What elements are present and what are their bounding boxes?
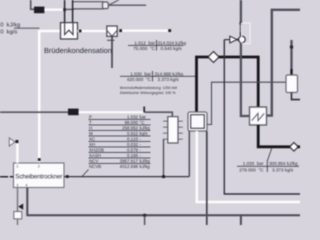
svg-text:M: M [89,131,93,136]
wire: bottom stub below J10 [240,215,242,225]
annotation text (Brennstoffwaermeleistung / Wirkungsgrad) [120,86,178,95]
wire: dryer pin 3 drain line [17,188,19,226]
wire: vapour line 2 into condenser [72,0,74,23]
drum D1 (horizontal cylinder with end cap) [73,2,108,9]
svg-text:kg/s: kg/s [140,131,149,136]
svg-text:XC: XC [89,136,95,141]
svg-text:0.032: 0.032 [127,142,139,147]
wire: white segment from K2 [79,111,144,113]
svg-text:bar: bar [140,114,147,119]
svg-text:4: 4 [26,183,28,187]
svg-text:0.640 kg/s: 0.640 kg/s [161,46,183,51]
wire: vapour line 1 into condenser [64,0,66,23]
wire: dark tip above B1 [290,69,292,75]
node J3 [119,29,122,32]
node J1 [63,8,66,11]
svg-text:1: 1 [17,164,19,168]
wire: white line from source into dryer pin 1 [16,144,18,164]
wire: main steam pipe (thick black) with corner [197,57,260,112]
node J4 (open end) [168,29,171,32]
svg-text:T: T [89,120,92,125]
heat exchanger W2 (box with zigzag) [250,107,267,125]
label S1 (cut-off stream values, kJ/kg and kg/s) [0,23,20,36]
wire: signal line from right box to G1 [207,82,286,124]
table T1 (stream property table) [89,114,150,168]
wire: gray feed from top edge into black box K1 [31,0,34,9]
component K2 (black box) [68,109,79,116]
svg-text:420.000 °C: 420.000 °C [127,77,152,82]
separator V1 (box with V funnel) [107,26,117,36]
svg-text:kJ/kg: kJ/kg [140,158,151,163]
wire: dark line from B1 bottom to right edge [292,93,301,100]
svg-text:Elektrischer Wirkungsgrad: 100: Elektrischer Wirkungsgrad: 100 % [120,91,176,95]
svg-text:kJ/kg: kJ/kg [140,164,151,169]
label S4 (1.030 bar / 279.000 C | 300.854 kJ/kg / 3.373 kg/s) [239,161,298,172]
svg-text:0.166: 0.166 [127,153,139,158]
svg-text:4012.698: 4012.698 [120,164,139,169]
svg-text:H: H [89,125,92,130]
wire: dash-dot line into dryer left [0,176,13,178]
label S2 (1.012 bar / 75.000 C | 314.024 kJ/kg / 0.640 kg/s) [133,40,186,51]
svg-text:0.579: 0.579 [127,147,139,152]
svg-text:10 kg/s: 10 kg/s [0,29,17,35]
node J5 [162,175,165,178]
arrow A2 (black triangle pointing left) [18,204,23,210]
wire: diagonal from drum cap [109,0,120,5]
valve VA1 (bowtie + circle) [224,36,245,43]
wire: thin line from valve corner down and right to edge [224,40,300,194]
svg-text:314.024 kJ/kg: 314.024 kJ/kg [158,40,187,45]
diamond N1 on steam pipe [208,52,219,63]
svg-text:XASH: XASH [89,153,101,158]
node J8 [66,175,69,178]
svg-text:Scheibentrockner: Scheibentrockner [15,174,62,181]
pin tick below separator [107,39,115,41]
generator G1 (double border box) [188,112,207,131]
svg-text:NCV: NCV [89,158,98,163]
svg-text:279.000 °C: 279.000 °C [239,167,264,172]
svg-text:Brüdenkondensation: Brüdenkondensation [44,46,112,55]
svg-text:2: 2 [38,164,40,168]
tick M1 [143,107,145,113]
wire: horizontal from drum cap to the right [109,4,147,6]
wire: gray line G1 bottom-left down to dryer pipe [188,131,190,177]
wire: gray pipe into right box B1 [290,40,292,75]
node J2 [79,30,82,33]
wire: leader from table to dryer outlet pipe [82,170,89,178]
dryer box (Scheibentrockner) [14,163,65,188]
wire: thick black drop into heat exchanger top [257,57,260,108]
svg-text:1.030 bar: 1.030 bar [243,161,264,166]
svg-text:Brennstoffwärmeleistung: 1250: Brennstoffwärmeleistung: 1250 kW [120,86,178,90]
svg-text:98.000: 98.000 [125,120,139,125]
svg-text:kJ/kg: kJ/kg [140,125,151,130]
wire: dryer outlet pipe to generator drop [64,176,189,178]
wire: white segment to open end [122,30,168,32]
wire: black segment above valve [240,33,242,37]
svg-text:0.922: 0.922 [127,131,139,136]
svg-text:75.000 °C: 75.000 °C [133,46,155,51]
svg-text:258.952: 258.952 [122,125,138,130]
wire: white segment from K1 to node J1 [44,9,64,11]
wire: white condensate main, corner at (40.8,31) [39,30,60,163]
component K1 (black box) [34,7,44,14]
wire: gray segment J1 to drum D1 [65,8,75,10]
wire: gray pipe valve to heat exchanger left port [241,43,250,116]
wire: dryer pin 4 pipe down and right across bottom [27,188,300,216]
wire: gray segment into heater top [145,112,172,117]
heater E1 (ribbed element) [163,117,183,143]
svg-text:XH2OB: XH2OB [89,147,104,152]
svg-text:1.032: 1.032 [127,114,139,119]
node J6 [240,22,243,25]
wire: leader of label S4 [268,148,273,161]
wire: separator drain down [111,36,113,68]
svg-text:0.123: 0.123 [127,136,139,141]
wire: from heater left tick down to node J5 [163,139,165,176]
svg-text:1.030 bar: 1.030 bar [130,71,151,76]
svg-text:°C: °C [140,120,145,125]
svg-text:3957.917: 3957.917 [120,158,139,163]
wire: white power line from G1 down and right [197,131,300,202]
wire: leader of S3 to main steam pipe [120,75,197,77]
node J9 with drop [143,214,146,217]
svg-text:XH: XH [89,142,95,147]
wire: thick black HX bottom out to right edge [258,125,300,147]
svg-text:3.373 kg/s: 3.373 kg/s [158,77,180,82]
white highlight rect beside valve [242,23,251,44]
svg-text:1.012 bar: 1.012 bar [134,40,155,45]
svg-text:3.373 kg/s: 3.373 kg/s [272,167,294,172]
component B2 (small white box on drain) [14,212,22,219]
wire: gray pipe top right corner into HX right port [267,10,301,116]
node J11 on white main at dryer pin 2 [38,158,41,161]
source arrow A1 with node [9,138,14,146]
wire: white segment condenser to separator [78,30,108,32]
diamond N2 on outlet pipe [290,143,299,152]
wire: gray line G1 bottom-right down to bottom edge [206,131,208,225]
svg-text:314.888 kJ/kg: 314.888 kJ/kg [155,71,184,76]
wire: gray return line into black box K2 [0,111,68,113]
svg-text:P: P [89,114,92,119]
component B1 (small box right) [286,75,298,93]
condenser W1 (box with bookmark symbol) [61,23,78,39]
svg-text:300.854 kJ/kg: 300.854 kJ/kg [269,161,298,166]
svg-text:NCVB: NCVB [89,164,101,169]
wire: gray pipe from top edge to valve [240,0,242,33]
node J7 [290,46,293,49]
svg-text:3: 3 [17,183,19,187]
label S3 (1.030 bar / 420.000 C | 314.888 kJ/kg / 3.373 kg/s) [127,71,184,82]
